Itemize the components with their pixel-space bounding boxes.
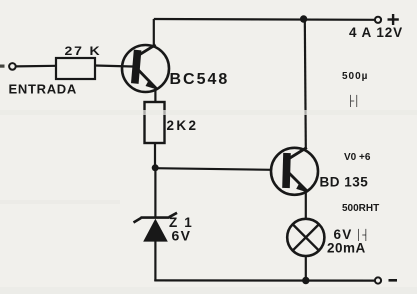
svg-text:ENTRADA: ENTRADA — [9, 82, 77, 97]
svg-text:├│: ├│ — [347, 94, 360, 108]
svg-text:20mA: 20mA — [327, 241, 366, 256]
wire: Q1 emitter down to R2 — [154, 89, 156, 103]
terminal: negative — [375, 277, 381, 283]
svg-text:500µ: 500µ — [342, 71, 368, 82]
wire: Q2 emitter down to lamp — [305, 191, 307, 219]
svg-text:6V: 6V — [172, 228, 192, 244]
transistor Q1 BC548 — [122, 45, 169, 92]
wire: R1 to Q1 base — [95, 66, 133, 67]
wire: top rail — [154, 18, 375, 21]
terminal: ENTRADA input — [9, 63, 16, 70]
svg-text:BD 135: BD 135 — [320, 175, 369, 190]
wire: node A down to Z1 — [154, 168, 156, 217]
wire: top junction down to Q2 collector — [305, 19, 306, 148]
zener Z1 — [134, 213, 178, 242]
scan artifacts (decorative, no labels needed) — [342, 71, 379, 242]
node: bottom junction dot — [302, 277, 309, 284]
terminal: +12V supply — [375, 17, 381, 23]
wire: node A to Q2 base — [155, 168, 272, 170]
svg-text:│┤: │┤ — [356, 228, 369, 242]
label: + — [388, 14, 399, 25]
svg-text:500RHT: 500RHT — [342, 203, 379, 214]
label: - — [389, 279, 398, 282]
svg-text:BC548: BC548 — [170, 71, 230, 88]
wire: bottom rail — [154, 279, 375, 281]
wire: lamp to bottom rail — [305, 256, 307, 281]
resistor R2 2K2 — [145, 102, 165, 143]
wire: input to R1 — [16, 65, 56, 68]
node A junction dot — [152, 164, 159, 171]
wire: Z1 to bottom rail — [154, 241, 156, 281]
svg-text:2K2: 2K2 — [167, 118, 199, 133]
lamp LP1 — [287, 219, 324, 256]
wire: Q1 collector up to rail — [153, 19, 155, 46]
svg-text:27 K: 27 K — [65, 44, 102, 57]
node: top junction dot — [300, 15, 307, 22]
wire: R2 to node A — [154, 143, 156, 168]
svg-text:4 A 12V: 4 A 12V — [349, 25, 403, 40]
resistor R1 27K — [56, 58, 95, 79]
transistor Q2 BD135 — [271, 148, 318, 195]
svg-text:V0 +6: V0 +6 — [344, 152, 371, 163]
